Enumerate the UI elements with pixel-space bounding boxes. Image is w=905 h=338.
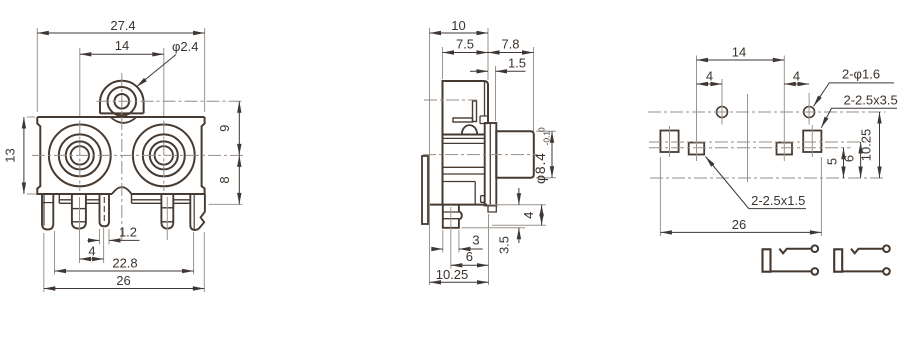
svg-text:4: 4 [521,212,536,219]
dim phi8.4 arrow line [551,131,553,178]
jack symbol 1 sleeve lead [771,270,812,272]
snap foot [443,205,462,228]
hole left phi1.6 [717,107,728,118]
svg-text:27.4: 27.4 [110,18,135,33]
svg-text:4: 4 [706,68,713,83]
dim 4 side [541,205,543,226]
left leg [42,194,53,230]
mounting wing [422,156,428,224]
svg-text:2-2.5x1.5: 2-2.5x1.5 [751,193,805,208]
dim 9 [238,101,240,155]
flange plate [481,123,497,212]
jack symbol 1 switch tick [779,249,811,254]
extension lines footprint [660,56,821,237]
label phi8.4 tolerance [532,127,552,184]
svg-text:5: 5 [824,158,839,165]
hole right phi1.6 [804,107,815,118]
contact vertical bar [473,101,477,122]
spring dome [462,125,477,134]
left RCA ring 3 [66,141,94,169]
svg-text:10.25: 10.25 [858,129,873,162]
housing internal lines [443,138,485,204]
svg-text:1.5: 1.5 [508,56,526,71]
dim 26 front [44,288,205,290]
left RCA hole [71,146,89,164]
dim 5 [843,148,845,178]
svg-text:9: 9 [217,125,232,132]
svg-text:3.5: 3.5 [497,236,512,254]
dim 3.5 [518,188,520,243]
svg-text:φ2.4: φ2.4 [172,39,199,54]
dim 14 front [80,53,164,55]
dim 6 side [451,264,489,266]
right RCA ring 2 [143,134,185,176]
svg-text:1.2: 1.2 [119,224,137,239]
jack symbol 2 sleeve pin [883,268,890,275]
dim 3 [432,248,483,250]
tab boss circle [108,87,137,116]
left RCA ring 2 [59,134,101,176]
body outline [37,117,204,194]
dim 26 footprint [660,231,821,233]
svg-text:26: 26 [116,273,130,288]
right RCA ring 3 [150,141,178,169]
center lines front view [32,73,244,240]
dim 10.25 side [430,281,489,283]
extension lines side view [430,28,557,285]
small slot right 2.5x1.5 [777,143,793,155]
svg-text:7.5: 7.5 [456,37,474,52]
dim 4 footprint left [697,83,723,85]
dim 1.2 [88,239,140,241]
right RCA hole [155,146,173,164]
pin 3 thin pin [100,194,110,226]
svg-text:10: 10 [451,18,465,33]
svg-text:6: 6 [466,249,473,264]
dim 4 front [80,258,104,260]
svg-text:14: 14 [732,45,746,60]
dim 14 footprint [697,59,785,61]
dim 13 [23,117,25,194]
dim 4 footprint right [784,83,809,85]
dim 7.5 [443,52,489,54]
jack symbol 2 switch tick [851,249,883,254]
dim 6 footprint [860,142,862,178]
svg-text:13: 13 [3,148,18,162]
svg-text:14: 14 [115,38,129,53]
dim 8 [238,155,240,204]
jack symbol 2 sleeve [834,249,842,271]
svg-text:-0.1: -0.1 [542,131,552,146]
dim 22.8 [55,270,194,272]
svg-text:8: 8 [217,176,232,183]
jack symbol 2 switch pin [883,245,890,252]
svg-text:2-2.5x3.5: 2-2.5x3.5 [844,92,898,107]
svg-text:26: 26 [732,217,746,232]
skirt band left [59,194,99,203]
dim 10 side [430,32,489,34]
svg-text:10.25: 10.25 [436,267,469,282]
center lines footprint [648,112,886,178]
svg-text:6: 6 [841,155,856,162]
big slot right 2.5x3.5 [803,131,821,153]
bottom arch bump [112,187,132,194]
svg-text:φ8.4: φ8.4 [532,152,548,184]
pin 4 crimp tab [161,194,173,229]
small slot left 2.5x1.5 [689,143,705,155]
right leg with barb [190,194,205,230]
svg-text:7.8: 7.8 [501,37,519,52]
main housing box [430,135,488,205]
jack symbol 1 switch pin [812,245,819,252]
svg-text:3: 3 [472,233,479,248]
dim 1.5 [470,70,526,72]
center lines side view [423,100,538,155]
dim 7.8 [488,52,534,54]
top arch cutout under tab [111,117,137,123]
jack symbol 1 sleeve [763,249,771,271]
contact horizontal bar [453,118,473,122]
svg-text:22.8: 22.8 [112,256,137,271]
tower (upper housing) [443,81,489,135]
dim 27.4 [37,32,204,34]
extension lines front view [27,28,243,292]
svg-text:4: 4 [88,244,95,259]
left RCA ring 1 [49,124,111,186]
svg-text:4: 4 [793,68,800,83]
mounting tab outer arc [100,81,144,114]
tab hole phi2.4 [115,94,130,109]
svg-text:2-φ1.6: 2-φ1.6 [842,67,880,82]
tower step block [480,116,488,124]
jack symbol 1 sleeve pin [812,268,819,275]
pin 2 crimp tab [72,194,86,229]
barrel phi8.4 [496,131,534,178]
jack symbol 2 sleeve lead [842,270,883,272]
dim 10.25 footprint [879,112,881,178]
skirt band right [132,194,191,203]
right RCA ring 1 [133,124,195,186]
big slot left 2.5x3.5 [660,131,678,153]
